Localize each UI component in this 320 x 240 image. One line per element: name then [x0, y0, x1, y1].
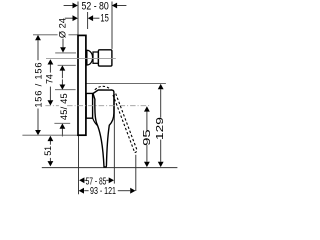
raised lever edge B (dashed) [116, 94, 137, 150]
dimension 57-85 line [85, 179, 87, 181]
extension line lever tip y=167.6 [42, 167, 178, 169]
svg-text:93 - 121: 93 - 121 [90, 186, 116, 197]
dimension 51 line [49, 141, 51, 145]
dimension 93-121 line [84, 190, 88, 192]
dimension 15 line [65, 17, 73, 19]
handle axis centre line [45, 105, 59, 107]
dimension 51 arrows [48, 136, 54, 141]
knob neck [93, 52, 98, 63]
lever handle hub fillet [93, 118, 98, 126]
extension line plate top y=34.8 [33, 34, 58, 36]
dimension 95 arrows [144, 106, 150, 111]
extension line lever reach x=134.6 [135, 155, 137, 191]
extension line knob top y=52 [55, 52, 76, 54]
knob dome [87, 50, 93, 65]
dimension 52-80 line [64, 5, 73, 7]
escutcheon plate [78, 35, 86, 135]
dimension D24 arrows [60, 47, 66, 52]
knob flange [98, 50, 112, 66]
extension line handle bottom y=123.3 [54, 122, 70, 124]
extension line plate front x=87.6 [87, 12, 89, 29]
dimension 129 arrows [158, 84, 164, 89]
dimension 45/45 arrows [60, 85, 66, 90]
dimension 95 line [146, 112, 148, 131]
extension line knob bottom y=65.3 [58, 64, 76, 66]
dimension 57-85 arrows [79, 177, 84, 183]
raised lever swing arc (dashed) [95, 86, 112, 90]
knob axis centre line [46, 57, 116, 59]
lever handle blade [93, 90, 114, 167]
dimension 52-80 arrows [73, 3, 78, 9]
raised lever end cap (dashed) [135, 150, 137, 153]
svg-text:95: 95 [142, 129, 153, 146]
dimension 156/156 line [37, 40, 39, 60]
extension line raised lever top y=83.4 [86, 82, 165, 84]
dimension 15 arrows [73, 15, 78, 21]
extension line handle front x=114.2 [113, 94, 115, 184]
svg-text:15: 15 [100, 13, 108, 25]
svg-text:Ø 24: Ø 24 [57, 18, 67, 38]
dimension 156/156 arrows [35, 35, 41, 40]
svg-text:45/ 45: 45/ 45 [59, 93, 69, 120]
extension line knob front x=112 [111, 2, 113, 49]
svg-text:51: 51 [43, 146, 53, 156]
svg-text:156 / 156: 156 / 156 [33, 62, 43, 108]
svg-text:52 - 80: 52 - 80 [82, 0, 109, 12]
extension line below plate x=78.5 [78, 136, 80, 194]
dimension 74 arrows [48, 59, 54, 64]
extension line handle top y=89.7 [55, 89, 76, 91]
dimension D24 line [62, 39, 64, 48]
dimension 129 line [160, 89, 162, 118]
extension line wall plane x=78 [77, 2, 79, 35]
svg-text:129: 129 [155, 117, 166, 140]
dimension 45/45 line [61, 79, 63, 84]
raised lever edge A (dashed) [113, 95, 135, 152]
dimension 93-121 arrows [79, 188, 84, 194]
lever handle hub [86, 93, 92, 118]
svg-text:74: 74 [45, 74, 55, 84]
extension line plate bottom y=135.2 [22, 134, 77, 136]
dimension 74 line [49, 64, 51, 72]
